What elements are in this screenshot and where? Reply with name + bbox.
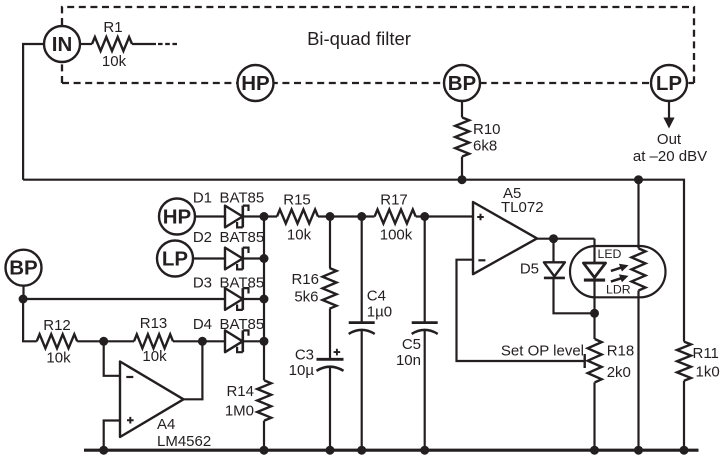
svg-text:10k: 10k bbox=[142, 348, 167, 365]
capacitor C4 bbox=[349, 321, 375, 324]
junction A4 inverting input bbox=[99, 337, 108, 346]
svg-text:D1: D1 bbox=[193, 190, 212, 207]
wire D2 to summing column bbox=[243, 257, 264, 259]
diode D2 BAT85 bbox=[225, 248, 249, 270]
wire IN to R1 bbox=[80, 43, 92, 45]
junction A5 output / D5 bbox=[549, 234, 558, 243]
junction C5 column bbox=[420, 212, 429, 221]
wire feedback rail bbox=[23, 180, 684, 342]
arrow LP out bbox=[668, 101, 670, 119]
node LP (rectifier input) bbox=[157, 241, 193, 277]
node HP (filter output) bbox=[238, 65, 274, 101]
svg-text:10k: 10k bbox=[102, 53, 127, 70]
svg-text:BAT85: BAT85 bbox=[220, 275, 265, 292]
junction ground rail x=424.7 bbox=[420, 446, 429, 455]
node BP (filter output) bbox=[444, 65, 480, 101]
wire summing column bbox=[263, 217, 265, 381]
wire R14 to ground rail bbox=[263, 421, 265, 451]
wire A5 feedback from inverting input bbox=[457, 260, 585, 361]
junction ground rail x=103.7 bbox=[99, 446, 108, 455]
svg-text:LP: LP bbox=[162, 248, 188, 271]
wire IN to left rail down bbox=[23, 44, 44, 180]
svg-text:BAT85: BAT85 bbox=[220, 229, 265, 246]
svg-text:BAT85: BAT85 bbox=[220, 190, 265, 207]
resistor R18 (trimmer) bbox=[588, 339, 602, 382]
dashed box Bi-quad filter block bbox=[62, 7, 694, 83]
svg-text:R1: R1 bbox=[103, 19, 122, 36]
wire D5 to LED cathode node bbox=[554, 278, 595, 313]
resistor R15 bbox=[277, 210, 318, 224]
wire R17 to A5 + bbox=[416, 215, 473, 217]
diode D5 bbox=[544, 262, 565, 276]
svg-text:C4: C4 bbox=[367, 288, 386, 305]
wire BP down to junction bbox=[22, 286, 24, 299]
wire node to C4 bbox=[361, 217, 363, 323]
svg-text:A4: A4 bbox=[157, 416, 175, 433]
resistor R1 bbox=[92, 37, 132, 51]
junction LED/R18 bbox=[590, 309, 599, 318]
resistor R10 bbox=[455, 118, 469, 157]
diode D1 BAT85 bbox=[225, 206, 249, 228]
svg-text:Set OP level: Set OP level bbox=[501, 343, 584, 360]
junction ground rail x=264 bbox=[260, 446, 269, 455]
junction ground rail x=684 bbox=[680, 446, 689, 455]
wire BP to R10 bbox=[461, 101, 463, 118]
svg-text:2k0: 2k0 bbox=[607, 364, 631, 381]
wire A4 non-inverting input to ground bbox=[104, 421, 120, 451]
resistor R16 bbox=[323, 268, 337, 309]
wire node to R16 bbox=[329, 217, 331, 269]
wire R11 to ground rail bbox=[683, 381, 685, 450]
svg-text:TL072: TL072 bbox=[501, 199, 544, 216]
wire C5 to ground rail bbox=[424, 331, 426, 451]
svg-text:R10: R10 bbox=[473, 121, 501, 138]
resistor R17 bbox=[375, 210, 416, 224]
svg-text:R15: R15 bbox=[283, 192, 311, 209]
wire A4 output up to node bbox=[184, 341, 203, 399]
junction rail-LDR bbox=[634, 175, 643, 184]
junction ground rail x=594.5 bbox=[590, 446, 599, 455]
wire R18 to ground rail bbox=[593, 382, 595, 450]
svg-text:R14: R14 bbox=[226, 383, 254, 400]
svg-text:1k0: 1k0 bbox=[696, 364, 720, 381]
wire HP to D1 bbox=[195, 215, 225, 217]
svg-text:HP: HP bbox=[241, 72, 269, 95]
junction rail-R10 bbox=[458, 175, 467, 184]
svg-text:at –20 dBV: at –20 dBV bbox=[633, 148, 707, 165]
node LP (filter output) bbox=[651, 65, 687, 101]
wire A5 output bbox=[537, 238, 595, 240]
wire D3 to summing column bbox=[243, 298, 264, 300]
resistor R11 bbox=[677, 342, 691, 381]
svg-text:C5: C5 bbox=[402, 336, 421, 353]
junction R16 column bbox=[326, 212, 335, 221]
svg-text:Out: Out bbox=[657, 131, 682, 148]
junction ground rail x=330 bbox=[326, 446, 335, 455]
svg-text:10n: 10n bbox=[396, 352, 421, 369]
svg-text:BAT85: BAT85 bbox=[220, 316, 265, 333]
node HP (rectifier input) bbox=[159, 199, 195, 235]
junction BP branch bbox=[19, 295, 28, 304]
svg-text:R11: R11 bbox=[693, 345, 719, 362]
wire LP to D2 bbox=[193, 257, 225, 259]
capacitor C5 bbox=[412, 321, 438, 324]
wire R10 to rail bbox=[461, 157, 463, 180]
svg-text:D2: D2 bbox=[193, 229, 212, 246]
wire dashed continuation stub bbox=[158, 43, 178, 45]
wire R12 to R13 bbox=[77, 340, 134, 342]
wire R1 to dashed stub bbox=[132, 43, 156, 45]
diode D4 BAT85 bbox=[225, 330, 249, 352]
svg-text:Bi-quad filter: Bi-quad filter bbox=[307, 28, 411, 49]
svg-text:IN: IN bbox=[52, 33, 73, 56]
svg-text:LP: LP bbox=[656, 72, 682, 95]
wiper tick into R18 bbox=[584, 354, 586, 368]
wire A4 inverting input bbox=[104, 341, 120, 376]
svg-text:R18: R18 bbox=[607, 343, 635, 360]
junction D1 column bbox=[260, 212, 269, 221]
node BP (rectifier input) bbox=[6, 250, 42, 286]
svg-text:R17: R17 bbox=[380, 192, 408, 209]
junction D3 column bbox=[260, 295, 269, 304]
svg-text:D4: D4 bbox=[193, 316, 212, 333]
optocoupler LED/LDR package bbox=[570, 246, 666, 297]
diode D3 BAT85 bbox=[225, 288, 249, 310]
LDR (in optocoupler) bbox=[637, 180, 639, 249]
junction ground rail x=361.7 bbox=[357, 446, 366, 455]
svg-text:1µ0: 1µ0 bbox=[367, 304, 392, 321]
wire C3 to ground rail bbox=[329, 368, 331, 451]
svg-text:1M0: 1M0 bbox=[225, 403, 254, 420]
svg-text:D3: D3 bbox=[193, 275, 212, 292]
svg-text:LED: LED bbox=[598, 247, 622, 261]
ground rail bbox=[84, 449, 699, 452]
wire D1 to summing node bbox=[243, 215, 277, 217]
resistor R12 bbox=[37, 334, 77, 348]
svg-text:C3: C3 bbox=[295, 347, 314, 364]
svg-text:6k8: 6k8 bbox=[473, 138, 497, 155]
svg-text:10k: 10k bbox=[287, 227, 312, 244]
junction C4 column bbox=[357, 212, 366, 221]
svg-text:HP: HP bbox=[163, 206, 191, 229]
svg-text:10µ: 10µ bbox=[289, 362, 315, 379]
wire C4 to ground rail bbox=[361, 331, 363, 451]
junction D4 column bbox=[260, 337, 269, 346]
wire R13 to D4 bbox=[173, 340, 225, 342]
capacitor C3 (electrolytic) bbox=[317, 358, 344, 361]
svg-text:R13: R13 bbox=[140, 315, 168, 332]
svg-text:LDR: LDR bbox=[606, 283, 631, 297]
light arrows LED to LDR bbox=[611, 267, 622, 271]
svg-text:R16: R16 bbox=[291, 271, 319, 288]
wire node to C5 bbox=[424, 217, 426, 323]
svg-text:BP: BP bbox=[448, 72, 476, 95]
node IN bbox=[44, 26, 80, 62]
LED (in optocoupler) bbox=[593, 239, 595, 263]
wire BP junction to D3 bbox=[23, 298, 225, 300]
junction D2 column bbox=[260, 254, 269, 263]
wire BP junction down to R12 bbox=[23, 299, 37, 341]
resistor R13 bbox=[134, 334, 173, 348]
junction ground rail x=638.5 bbox=[634, 446, 643, 455]
wire R15 to R17 bbox=[318, 215, 375, 217]
svg-text:10k: 10k bbox=[46, 350, 71, 367]
svg-text:R12: R12 bbox=[43, 317, 71, 334]
svg-text:100k: 100k bbox=[380, 227, 413, 244]
junction A4 output node bbox=[198, 337, 207, 346]
resistor R14 bbox=[257, 380, 271, 420]
op-amp A4 LM4562 bbox=[120, 362, 184, 438]
op-amp A5 TL072 bbox=[473, 202, 537, 274]
svg-text:LM4562: LM4562 bbox=[157, 433, 211, 450]
svg-text:BP: BP bbox=[9, 257, 37, 280]
svg-text:D5: D5 bbox=[520, 261, 539, 278]
wire D4 to summing column bbox=[243, 340, 264, 342]
wire output to D5 bbox=[552, 239, 554, 263]
svg-text:5k6: 5k6 bbox=[294, 289, 318, 306]
wire R16 to C3 bbox=[329, 309, 331, 360]
